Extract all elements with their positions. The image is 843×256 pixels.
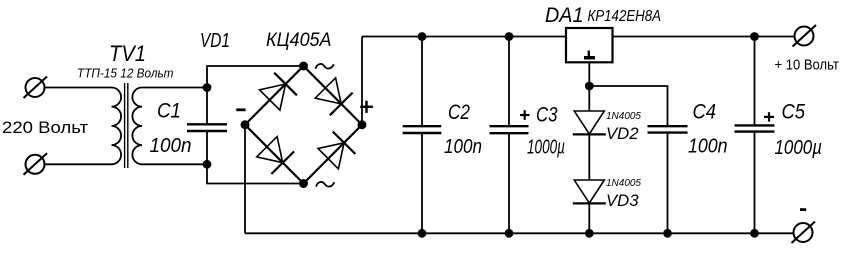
node DA1 ground: [585, 82, 594, 91]
node C3 bottom: [505, 229, 514, 238]
svg-text:VD3: VD3: [606, 192, 639, 210]
bridge diode bottom-right: [318, 132, 355, 169]
terminal input bottom: [24, 153, 48, 175]
capacitor C5: [735, 37, 775, 234]
wire secondary bottom lead: [142, 163, 207, 165]
node C5 bottom: [750, 229, 759, 238]
diode bridge VD1 edges: [245, 66, 362, 184]
svg-text:C2: C2: [448, 101, 470, 124]
node C5 top: [750, 32, 759, 41]
wire bottom rail: [245, 232, 794, 234]
bridge plus sign: [360, 101, 373, 113]
terminal output minus: [792, 222, 816, 244]
svg-text:VD2: VD2: [606, 125, 639, 143]
node C2 bottom: [418, 229, 427, 238]
svg-text:VD1: VD1: [200, 29, 230, 52]
diode VD3: [573, 180, 606, 233]
capacitor C4: [648, 126, 688, 233]
svg-text:1N4005: 1N4005: [606, 178, 642, 189]
svg-text:100n: 100n: [688, 136, 728, 158]
wire top rail to DA1: [362, 36, 566, 38]
node bridge bottom: [299, 179, 308, 188]
bridge diode left-bottom: [257, 137, 294, 174]
svg-text:1N4005: 1N4005: [606, 111, 642, 122]
svg-text:C5: C5: [782, 100, 806, 123]
wire primary bottom lead: [45, 163, 112, 165]
node bridge left: [241, 120, 250, 129]
wire bridge minus down: [244, 125, 246, 234]
wire secondary top lead: [142, 87, 207, 89]
svg-text:КЦ405А: КЦ405А: [266, 30, 332, 51]
svg-text:C3: C3: [536, 104, 558, 127]
diode VD2: [573, 86, 606, 134]
node secondary bottom: [203, 160, 212, 169]
svg-text:100n: 100n: [444, 136, 482, 158]
terminal output plus: [793, 25, 817, 47]
svg-text:DA1: DA1: [545, 4, 584, 27]
transformer TV1 secondary winding: [132, 88, 142, 165]
DA1 ground pin symbol: [584, 51, 595, 60]
transformer TV1 primary winding: [112, 88, 122, 165]
transformer TV1 core: [125, 83, 128, 168]
wire ground node to C4: [589, 86, 667, 126]
C3 plus sign: [520, 110, 530, 120]
node secondary top: [203, 83, 212, 92]
wire VD2 to VD3: [588, 134, 590, 180]
svg-text:TV1: TV1: [109, 41, 146, 66]
bridge tilde bottom: [316, 182, 334, 187]
svg-text:100n: 100n: [150, 135, 192, 157]
svg-text:ТТП-15 12 Вольт: ТТП-15 12 Вольт: [77, 66, 174, 81]
wire DA1 output to terminal: [613, 36, 795, 38]
node C4 bottom: [663, 229, 672, 238]
node bridge right: [358, 120, 367, 129]
terminal input top: [24, 77, 48, 99]
bridge diode left-top: [260, 73, 297, 110]
capacitor C2: [403, 37, 442, 234]
node C2 top: [418, 32, 427, 41]
wire primary top lead: [45, 87, 112, 89]
bridge tilde top: [316, 64, 334, 69]
C5 plus sign: [764, 112, 774, 121]
wire bridge plus up to top rail: [361, 37, 363, 125]
capacitor C1: [187, 88, 227, 165]
svg-text:220 Вольт: 220 Вольт: [2, 118, 88, 137]
node C3 top: [505, 32, 514, 41]
regulator DA1 box: [566, 28, 613, 62]
bridge diode top-right: [315, 78, 352, 115]
svg-text:1000µ: 1000µ: [527, 136, 565, 158]
capacitor C3: [490, 37, 529, 234]
svg-text:1000µ: 1000µ: [775, 137, 823, 159]
svg-text:C4: C4: [693, 100, 717, 123]
wire C1 bottom to bridge bottom node: [207, 164, 304, 183]
bridge minus sign: [236, 108, 245, 111]
svg-text:КР142ЕН8А: КР142ЕН8А: [588, 8, 662, 25]
wire DA1 ground down: [588, 62, 590, 86]
node VD3 bottom: [585, 229, 594, 238]
svg-text:C1: C1: [157, 100, 181, 123]
wire C1 top to bridge top node: [207, 66, 304, 88]
node bridge top: [299, 62, 308, 71]
label minus output: [800, 208, 806, 211]
svg-text:+ 10 Вольт: + 10 Вольт: [775, 56, 839, 73]
